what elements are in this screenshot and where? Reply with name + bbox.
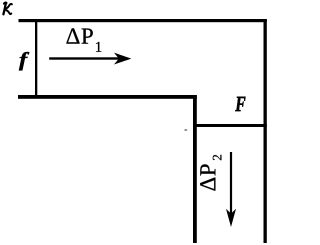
wire: bottom wall of horizontal channel — [18, 95, 197, 99]
wire: top wall of horizontal channel — [19, 19, 267, 22]
wire: left wall of vertical channel — [193, 95, 197, 243]
wire: right wall of vertical channel — [264, 19, 267, 243]
label F (large piston) — [235, 97, 245, 111]
piston F (horizontal plate in vertical channel) — [193, 124, 267, 127]
label dP2 (rotated 90 deg) — [200, 155, 221, 191]
label dP1 P — [82, 29, 93, 44]
label dP1 delta — [66, 28, 79, 43]
speck — [185, 129, 188, 130]
arrow dP1 (rightward) — [49, 57, 119, 59]
label kappa (compressibility coefficient, top-left) — [3, 2, 12, 14]
arrow dP2 (downward) — [230, 152, 232, 214]
piston f (left vertical plate) — [35, 20, 37, 97]
label dP2 subscript 2 — [213, 155, 222, 160]
label f (small piston) — [19, 52, 29, 70]
label dP1 subscript 1 — [96, 42, 101, 52]
